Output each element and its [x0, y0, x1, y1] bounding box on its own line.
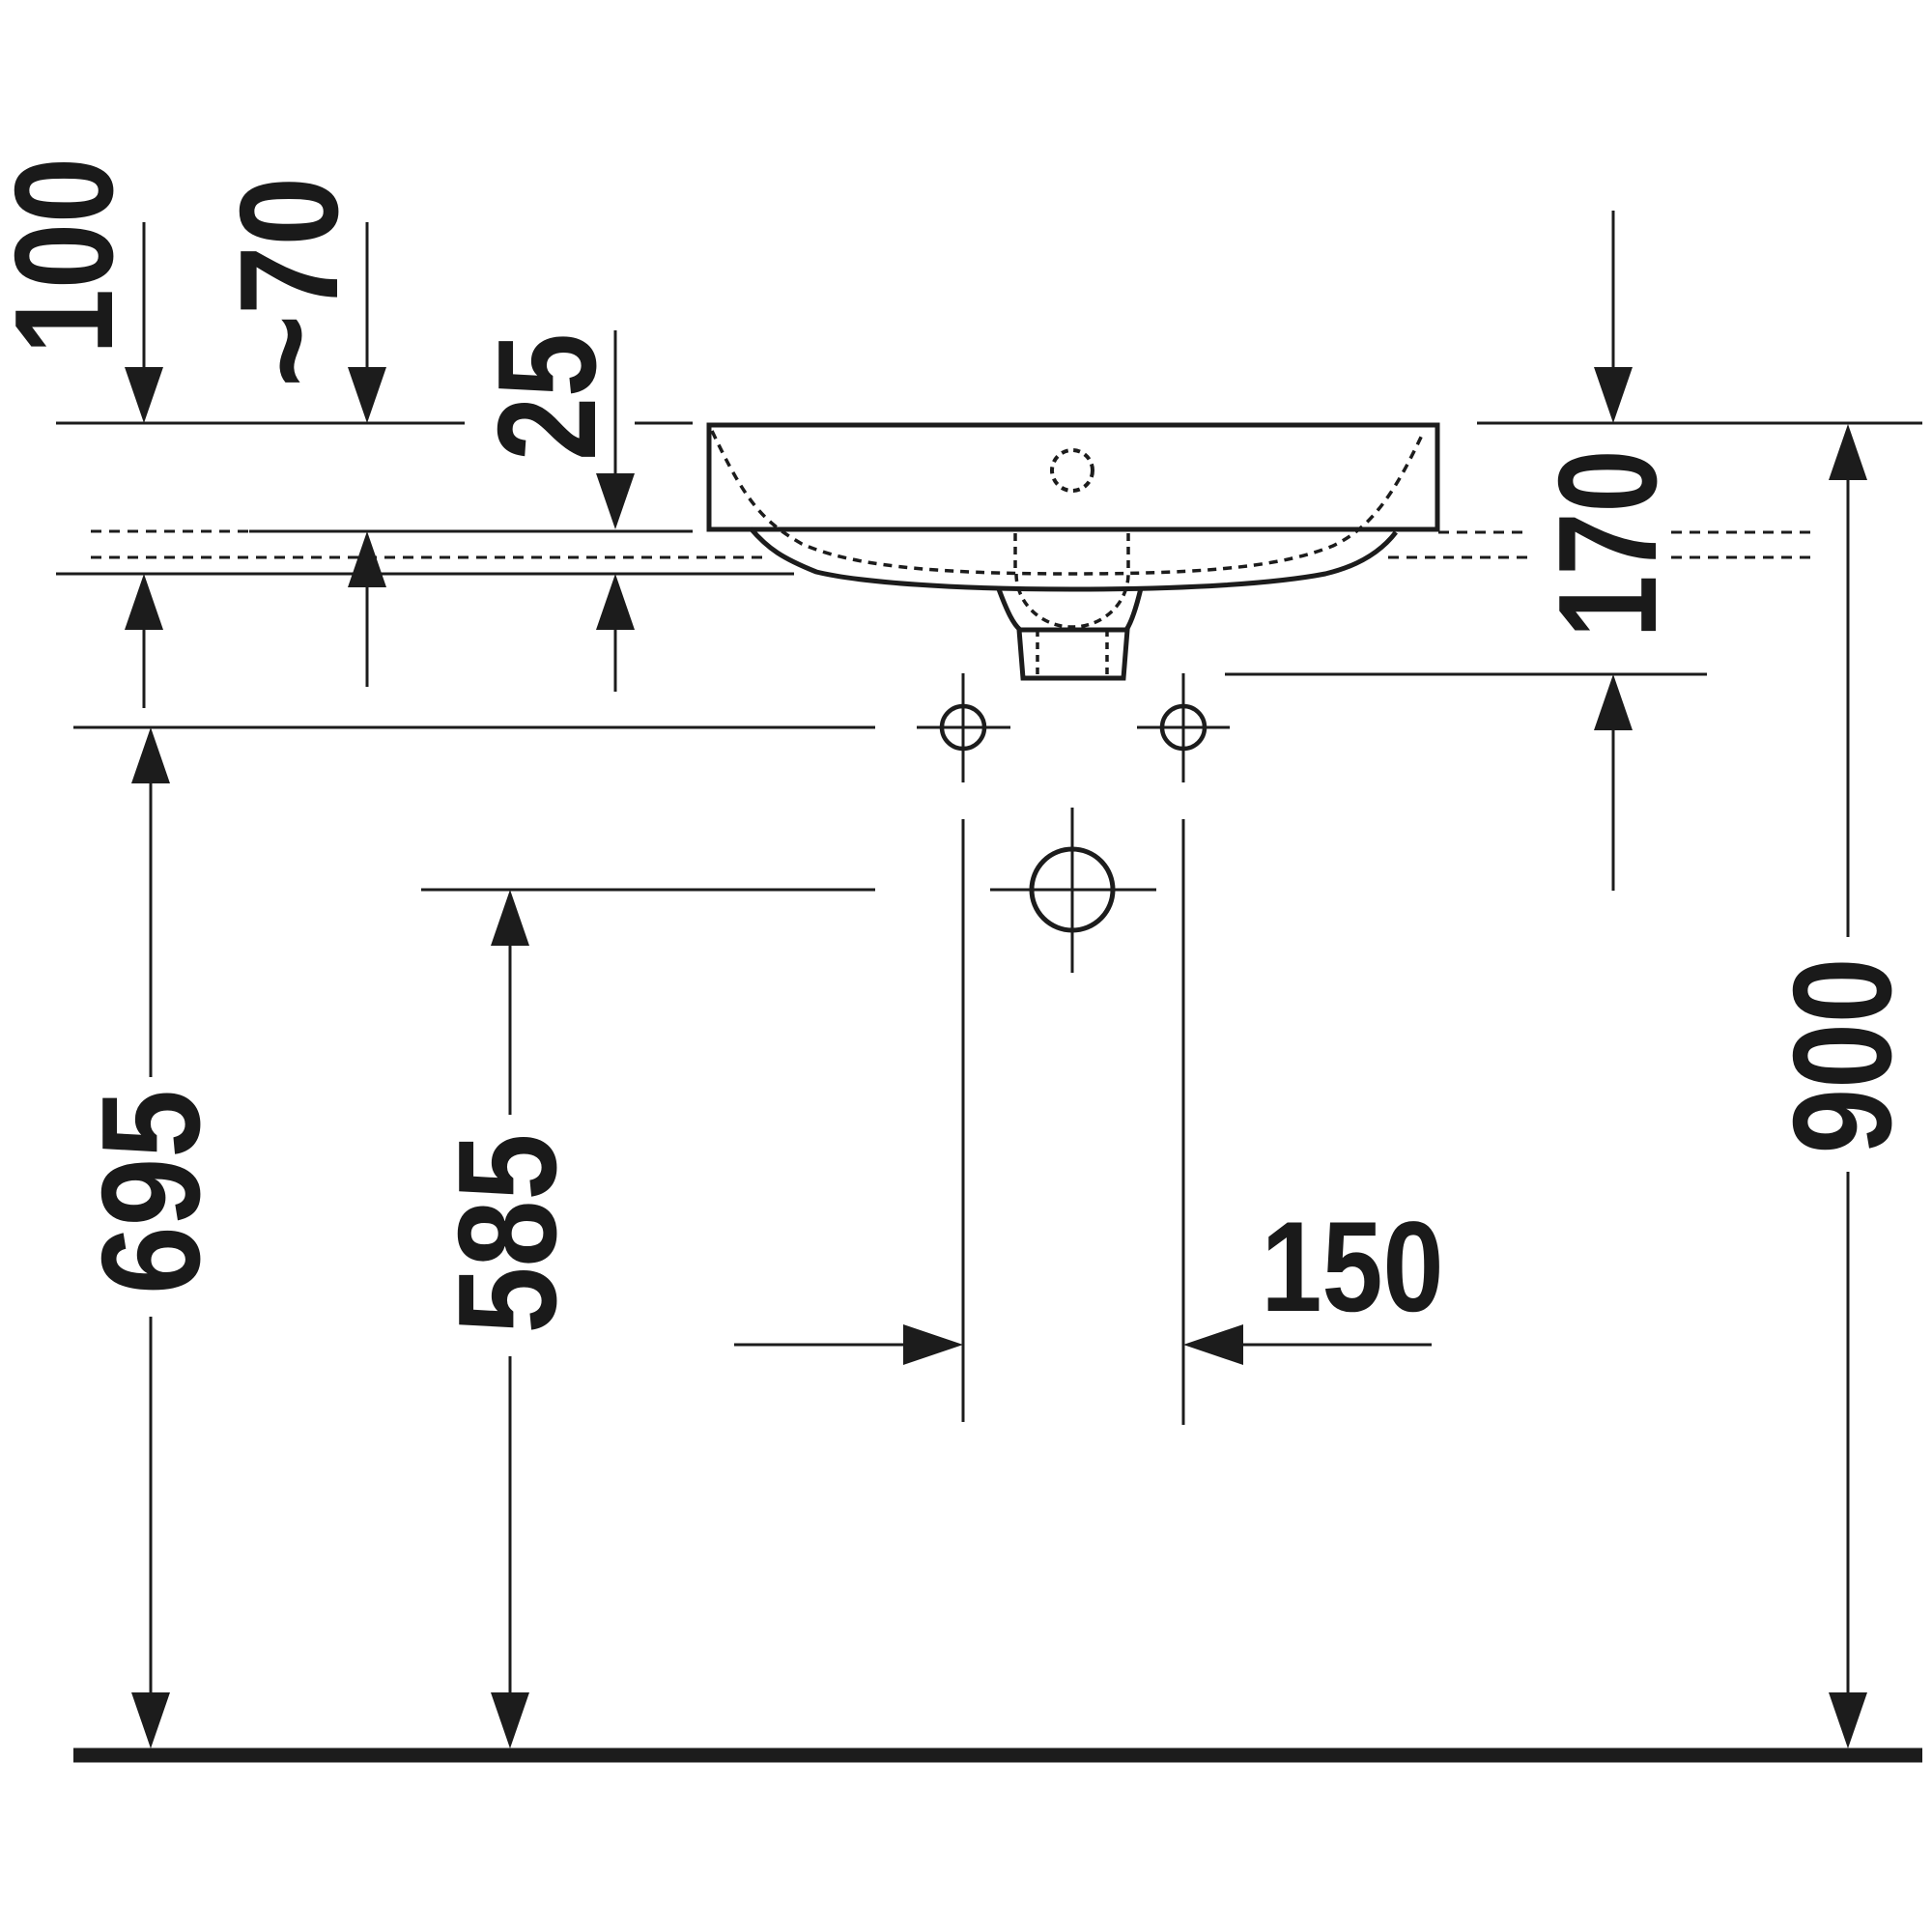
drain hidden arc (dashed): [1016, 574, 1128, 627]
dimension 25 lower arrow: [596, 574, 635, 692]
dimension label 25: [469, 333, 625, 461]
washbasin rim outline: [709, 425, 1437, 529]
dimension 170 upper arrow: [1594, 211, 1633, 423]
dimension label 900: [1764, 958, 1920, 1154]
svg-text:585: 585: [429, 1134, 585, 1334]
dimension label 170: [1529, 450, 1686, 639]
trap outlet crosshair: [990, 808, 1156, 973]
dimension 695 lower line and arrow: [131, 1317, 170, 1748]
console mid dashed line left: [91, 556, 765, 559]
dimension 900 upper arrow and line: [1829, 424, 1867, 937]
dimension label 150: [1262, 1196, 1444, 1339]
trap outlet hole: [1032, 849, 1113, 930]
dimension ~70 lower arrow: [348, 531, 386, 687]
console top line left (dashed part): [91, 530, 249, 533]
console top dashed line right: [1438, 531, 1814, 534]
dimension label ~70: [211, 177, 367, 387]
reference line rim-top level, left segments: [56, 422, 693, 425]
svg-text:695: 695: [72, 1090, 229, 1294]
dimension 150 left extension line: [962, 819, 965, 1422]
dimension label 695: [72, 1090, 229, 1294]
trap level line (585 extent): [421, 889, 875, 892]
right mounting hole: [1162, 706, 1205, 749]
left mounting hole: [942, 706, 984, 749]
console mid dashed line right: [1388, 556, 1814, 559]
dimension 585 upper arrow and line: [491, 890, 529, 1115]
drain nut hidden edges (dashed verticals): [1037, 630, 1107, 678]
drain bottom level line (170 extent): [1225, 673, 1707, 676]
console top line left (solid part): [249, 530, 693, 533]
floor line: [73, 1748, 1922, 1763]
faucet hole dashed circle: [1052, 450, 1093, 491]
svg-text:~70: ~70: [211, 177, 367, 387]
dimension label 585: [429, 1134, 585, 1334]
mounting holes level line: [73, 726, 875, 729]
dimension 150 right extension line: [1182, 819, 1185, 1425]
dimension 100 upper arrow: [125, 222, 163, 423]
drain funnel sides: [999, 588, 1141, 630]
washbasin inner bowl dashed curve: [712, 431, 1424, 574]
svg-text:170: 170: [1529, 450, 1686, 639]
console bottom line left: [56, 573, 794, 576]
dimension 170 lower arrow: [1594, 674, 1633, 891]
dimension 585 lower line and arrow: [491, 1356, 529, 1748]
dimension 900 lower line and arrow: [1829, 1172, 1867, 1748]
svg-text:100: 100: [0, 157, 142, 355]
dimension 150 left arrow: [734, 1324, 963, 1365]
dimension 150 right arrow: [1183, 1324, 1432, 1365]
right mounting hole crosshair: [1137, 673, 1230, 782]
svg-text:900: 900: [1764, 958, 1920, 1154]
svg-text:25: 25: [469, 333, 625, 461]
drain nut: [1019, 630, 1127, 678]
dimension 25 upper arrow: [596, 330, 635, 529]
drain opening hidden edges (dashed verticals): [1015, 533, 1128, 574]
washbasin outer bowl curve: [751, 528, 1396, 589]
dimension 100 lower arrow: [125, 574, 163, 708]
left mounting hole crosshair: [917, 673, 1010, 782]
dimension label 100: [0, 157, 142, 355]
dimension ~70 upper arrow: [348, 222, 386, 423]
svg-text:150: 150: [1262, 1196, 1444, 1339]
reference line rim-top level, right segment: [1477, 422, 1922, 425]
dimension 695 upper arrow and line: [131, 727, 170, 1077]
